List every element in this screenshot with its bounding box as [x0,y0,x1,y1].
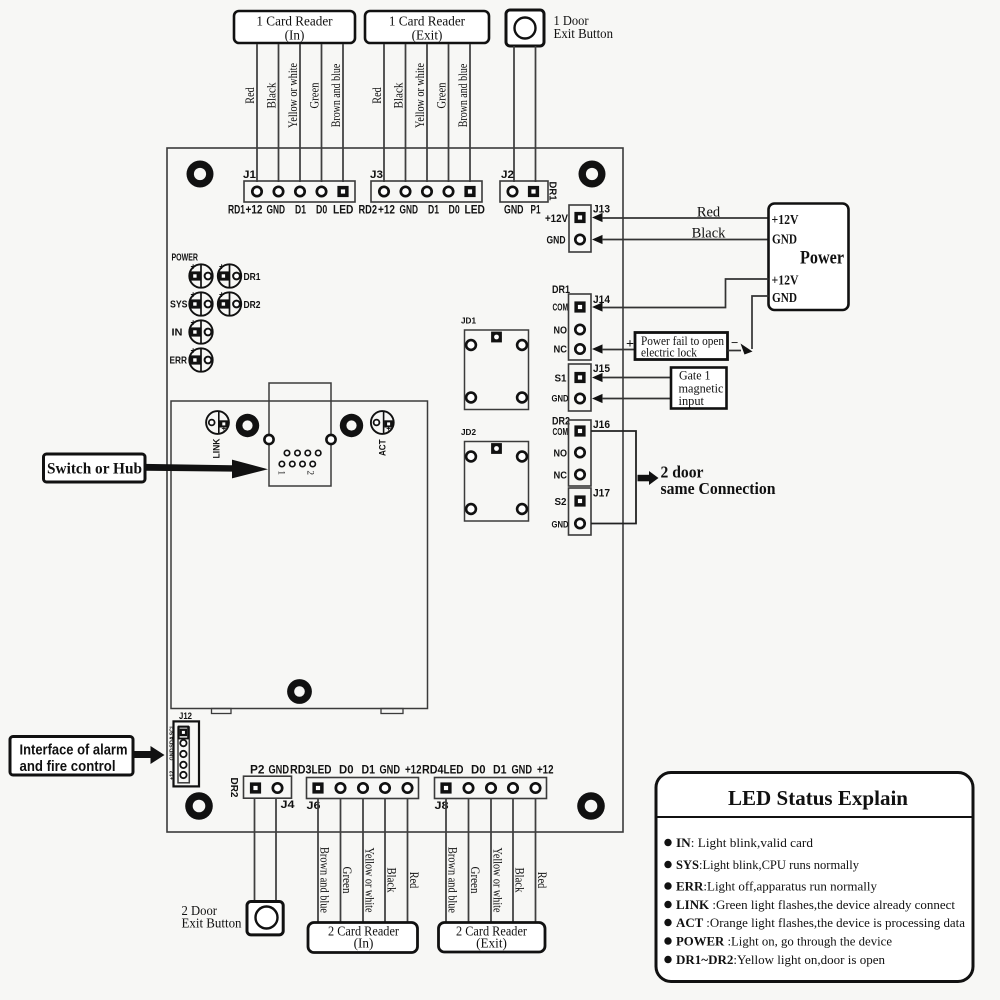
svg-text:+12: +12 [378,203,395,217]
svg-text:2: 2 [306,471,316,476]
svg-text:+: + [219,262,224,272]
svg-text:1 Card Reader: 1 Card Reader [256,14,333,29]
svg-text:Switch or Hub: Switch or Hub [47,461,142,478]
svg-text:GND: GND [380,763,401,777]
svg-text:Black: Black [264,82,279,108]
svg-text:D0: D0 [316,203,327,217]
svg-text:Power: Power [800,248,844,269]
svg-text:Green: Green [434,82,449,108]
svg-text:J12: J12 [179,711,192,721]
svg-text:+12: +12 [246,203,263,217]
svg-text:J1: J1 [243,169,256,181]
svg-text:Yellow or white: Yellow or white [491,848,505,913]
svg-text:Black: Black [513,868,527,894]
svg-text:DR1: DR1 [244,271,261,283]
svg-text:LED: LED [312,763,332,777]
svg-text:Yellow or white: Yellow or white [285,63,300,128]
svg-text:Interface of alarm: Interface of alarm [20,743,128,759]
svg-text:Black: Black [385,868,399,894]
svg-text:input: input [679,393,705,408]
svg-text:POWER :Light on, go through th: POWER :Light on, go through the device [676,934,892,949]
svg-text:GND: GND [772,232,797,247]
svg-text:+12: +12 [169,771,175,780]
svg-text:D0: D0 [339,763,354,777]
svg-text:Red: Red [242,87,257,104]
svg-text:J4: J4 [281,799,296,811]
svg-text:LINK :Green light flashes,the: LINK :Green light flashes,the device alr… [676,897,955,912]
svg-text:SYS: SYS [170,299,188,311]
svg-text:J2: J2 [501,169,514,181]
svg-text:P2: P2 [250,763,265,777]
svg-text:D0: D0 [449,203,460,217]
svg-text:NC: NC [554,471,568,482]
svg-text:GND: GND [267,203,286,217]
svg-text:GND: GND [400,203,419,217]
svg-text:Red: Red [535,872,549,889]
svg-text:RD2: RD2 [359,203,378,217]
svg-text:+: + [191,262,196,272]
svg-text:ACT :Orange light flashes,the: ACT :Orange light flashes,the device is … [676,915,965,930]
svg-text:Yellow or white: Yellow or white [363,848,377,913]
svg-text:Brown and blue: Brown and blue [328,64,343,128]
svg-text:NC: NC [554,345,568,356]
svg-text:electric lock: electric lock [641,345,697,360]
svg-text:+12V: +12V [772,273,799,288]
svg-text:Brown and blue: Brown and blue [318,847,332,913]
svg-text:Red: Red [369,87,384,104]
svg-text:GND: GND [504,203,524,217]
svg-text:+: + [219,290,224,300]
svg-text:DR2: DR2 [552,416,570,428]
svg-text:JD1: JD1 [461,316,476,326]
svg-text:J17: J17 [593,488,610,500]
svg-text:LED: LED [465,203,486,217]
svg-text:Exit Button: Exit Button [554,27,614,42]
svg-text:Black: Black [391,82,406,108]
svg-text:DR1: DR1 [547,182,559,201]
svg-text:JD2: JD2 [461,427,476,437]
svg-text:GND: GND [552,520,569,531]
svg-text:DR1~DR2:Yellow light on,door i: DR1~DR2:Yellow light on,door is open [676,952,885,967]
svg-text:LINK: LINK [212,438,223,458]
svg-text:COM: COM [553,303,569,314]
svg-text:Green: Green [468,867,482,895]
svg-text:D1: D1 [362,763,376,777]
svg-text:LED: LED [444,763,464,777]
svg-text:Brown and blue: Brown and blue [446,847,460,913]
svg-text:GND: GND [169,748,175,760]
svg-text:Red: Red [407,872,421,889]
svg-text:SYS:Light blink,CPU runs norma: SYS:Light blink,CPU runs normally [676,857,859,872]
svg-text:(Exit): (Exit) [412,28,443,43]
svg-text:Yellow or white: Yellow or white [412,63,427,128]
svg-text:GND: GND [269,763,290,777]
svg-text:D1: D1 [493,763,507,777]
svg-text:+: + [222,424,227,433]
svg-text:Exit Button: Exit Button [182,917,242,932]
svg-text:+: + [626,337,634,352]
svg-text:(In): (In) [354,936,374,951]
svg-text:Red: Red [697,205,721,221]
svg-text:J15: J15 [593,363,610,375]
svg-text:+: + [191,318,196,328]
svg-text:−: − [731,335,738,350]
svg-text:Green: Green [307,82,322,108]
svg-text:S2: S2 [555,497,567,508]
svg-text:RD1: RD1 [228,203,245,217]
svg-text:+12V: +12V [545,213,569,225]
svg-text:GND: GND [547,235,566,247]
svg-text:D1: D1 [428,203,439,217]
svg-text:ERR: ERR [170,355,188,367]
svg-text:1 Card Reader: 1 Card Reader [389,14,466,29]
svg-text:RD4: RD4 [422,763,444,777]
svg-text:GND: GND [552,394,569,405]
svg-text:GND: GND [512,763,533,777]
svg-text:D0: D0 [471,763,486,777]
svg-text:DR1: DR1 [552,284,570,296]
svg-text:LED: LED [333,203,354,217]
svg-text:Green: Green [340,867,354,895]
svg-text:+12V: +12V [772,212,799,227]
svg-text:NO: NO [554,326,568,337]
svg-text:+12: +12 [405,763,422,777]
svg-text:and fire control: and fire control [20,759,116,775]
svg-text:GND: GND [772,290,797,305]
svg-text:Black: Black [692,226,727,242]
svg-text:+: + [191,346,196,356]
svg-text:ACT: ACT [378,439,389,456]
svg-text:P1: P1 [531,203,541,217]
svg-text:(Exit): (Exit) [476,936,507,951]
svg-text:SDA: SDA [169,736,175,748]
svg-text:J16: J16 [593,419,610,431]
svg-text:NO: NO [554,449,568,460]
svg-text:+: + [386,424,391,433]
svg-text:S1: S1 [555,374,567,385]
svg-text:1: 1 [277,471,287,476]
svg-text:DR2: DR2 [244,299,261,311]
svg-text:RD3: RD3 [290,763,312,777]
svg-text:SCL: SCL [169,724,175,736]
svg-text:ERR:Light off,apparatus run no: ERR:Light off,apparatus run normally [676,879,877,894]
svg-text:IN: Light blink,valid card: IN: Light blink,valid card [676,835,813,850]
svg-text:Brown and blue: Brown and blue [455,64,470,128]
svg-text:D1: D1 [295,203,306,217]
svg-text:DR2: DR2 [228,778,240,798]
svg-text:+12: +12 [537,763,554,777]
svg-text:COM: COM [553,427,569,438]
svg-text:LED Status Explain: LED Status Explain [728,786,908,810]
svg-text:J3: J3 [370,169,383,181]
svg-text:IN: IN [172,327,183,339]
svg-text:+: + [191,290,196,300]
svg-text:(In): (In) [285,28,305,43]
svg-text:same Connection: same Connection [661,479,776,498]
